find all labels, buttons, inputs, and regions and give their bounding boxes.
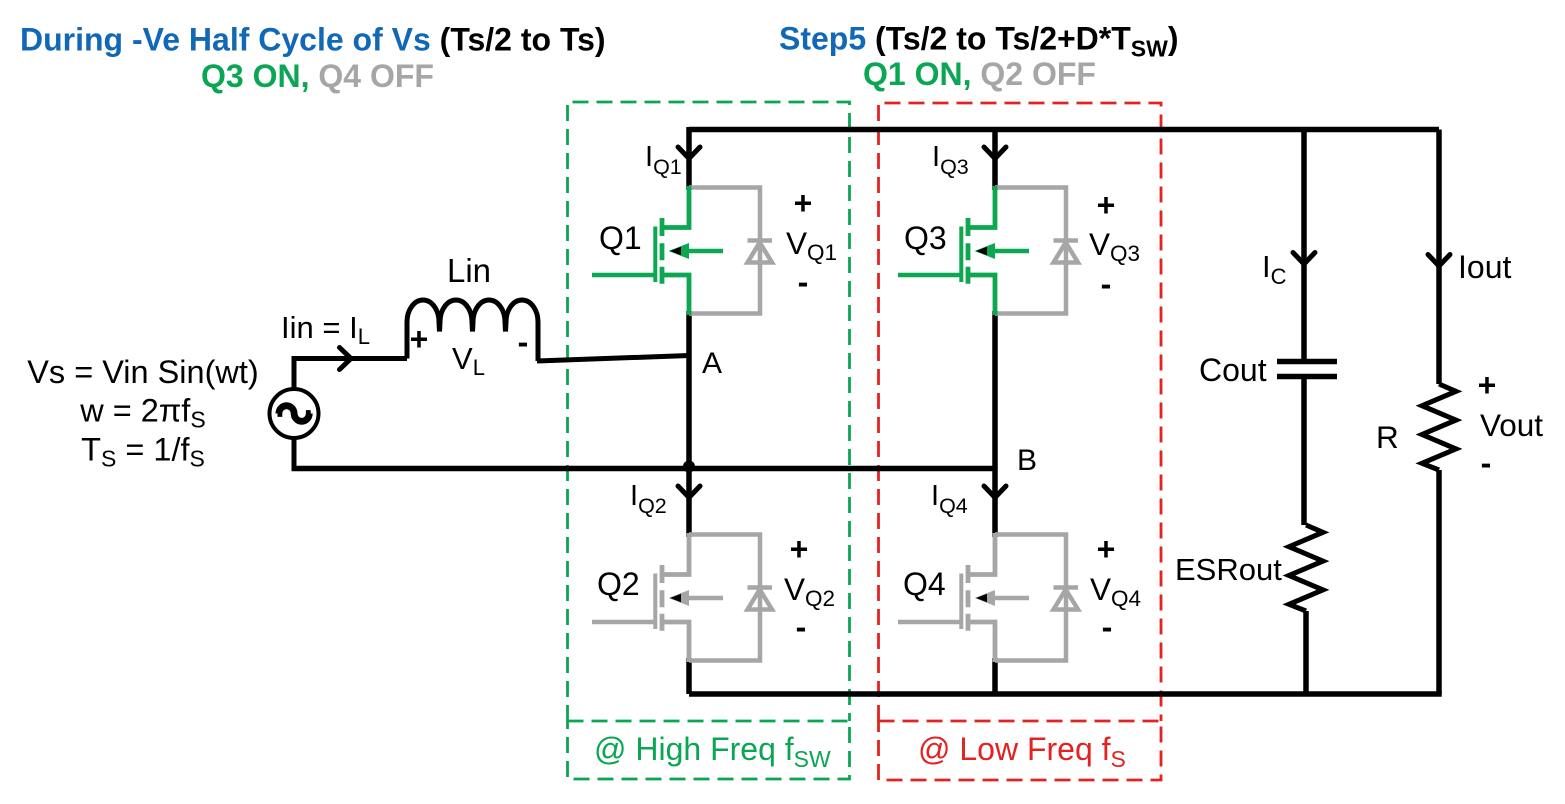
VQ1 label: [786, 225, 837, 265]
svg-text:+: +: [794, 185, 813, 221]
body diode D3 and loop: [995, 188, 1078, 314]
transistor Q2 (gray, with gray body diode D2): [592, 533, 772, 662]
svg-text:Q4: Q4: [903, 566, 946, 602]
svg-text:Iout: Iout: [1458, 249, 1511, 285]
svg-text:-: -: [1481, 445, 1492, 481]
IQ2 arrow: [678, 486, 700, 498]
svg-text:-: -: [1101, 266, 1112, 302]
wire Q2 source to bottom bus: [686, 658, 692, 694]
capacitor Cout: [1277, 362, 1337, 377]
VQ2 label: [784, 571, 835, 611]
svg-text:-: -: [518, 324, 529, 360]
red label text @ Low Freq fS: [918, 731, 1126, 772]
R label: [1376, 419, 1399, 455]
green label box: [568, 721, 850, 779]
svg-text:w = 2πfS: w = 2πfS: [79, 393, 205, 433]
body diode D2 and loop: [689, 535, 772, 661]
MOSFET body Q4: [898, 533, 1029, 662]
svg-text:-: -: [1102, 609, 1113, 645]
svg-text:Q2: Q2: [597, 566, 640, 602]
IQ1 label: [645, 141, 682, 179]
svg-text:B: B: [1017, 444, 1037, 477]
wire bottom bus: [689, 691, 1442, 697]
svg-text:Q1: Q1: [599, 220, 642, 256]
svg-text:+: +: [410, 321, 429, 357]
wire Cout to ESRout: [1301, 377, 1307, 526]
VQ2 plus: [790, 531, 809, 567]
wire A row (source bottom to leg B): [292, 466, 996, 472]
IQ3 arrow: [984, 147, 1006, 159]
Vout plus: [1478, 367, 1497, 403]
Q4 substrate arrow: [975, 590, 996, 606]
ESRout label: [1175, 552, 1282, 587]
VQ4 label: [1090, 571, 1141, 611]
MOSFET body Q2: [592, 533, 723, 662]
VL minus: [518, 324, 529, 360]
VQ3 minus: [1101, 266, 1112, 302]
Q1 substrate arrow: [669, 243, 690, 259]
IQ3 label: [932, 141, 969, 179]
svg-text:Vout: Vout: [1480, 407, 1543, 443]
IC arrow: [1293, 253, 1315, 265]
wire inductor to node A: [537, 356, 689, 362]
Q3 substrate arrow: [975, 243, 996, 259]
wire ESRout to bottom bus: [1303, 611, 1309, 694]
svg-text:Vs = Vin Sin(wt): Vs = Vin Sin(wt): [27, 354, 259, 390]
wire Q3 source to B: [992, 311, 998, 469]
transistor Q3 (green, with gray body diode D3): [898, 186, 1078, 315]
Iout arrow: [1428, 255, 1450, 267]
MOSFET body Q1: [592, 186, 723, 315]
green dashed region box: [568, 102, 850, 721]
svg-text:TS = 1/fS: TS = 1/fS: [81, 431, 205, 471]
svg-text:Q3: Q3: [904, 220, 947, 256]
title line 1 left: [20, 22, 606, 58]
Q4 label: [903, 566, 946, 602]
wire source bottom lead: [292, 438, 297, 469]
IQ1 arrow: [678, 147, 700, 159]
wire Q2 drain leg: [686, 469, 692, 538]
red label box: [879, 721, 1162, 780]
svg-text:Cout: Cout: [1199, 352, 1267, 388]
resistor ESRout: [1289, 525, 1323, 611]
VQ2 minus: [796, 609, 807, 645]
wire top bus: [689, 127, 1439, 133]
body diode D4 and loop: [995, 535, 1078, 661]
Iin arrow: [340, 348, 352, 370]
IQ2 label: [630, 480, 667, 518]
svg-text:R: R: [1376, 419, 1399, 455]
svg-text:ESRout: ESRout: [1175, 552, 1282, 587]
svg-text:Q1 ON, Q2 OFF: Q1 ON, Q2 OFF: [863, 56, 1096, 92]
wire source top lead: [294, 359, 407, 390]
svg-text:+: +: [1097, 531, 1116, 567]
Cout label: [1199, 352, 1267, 388]
wire Q1 source to A: [686, 311, 692, 469]
svg-text:-: -: [798, 264, 809, 300]
AC source Vs: [270, 389, 319, 438]
svg-text:-: -: [796, 609, 807, 645]
Iout label: [1458, 249, 1511, 285]
MOSFET body Q3: [898, 186, 1029, 315]
wire Q4 source to bottom bus: [992, 658, 998, 694]
body diode D1 and loop: [689, 188, 772, 314]
node A label: [702, 347, 722, 380]
svg-text:Iin = IL: Iin = IL: [281, 310, 370, 349]
wire Q1 drain leg: [686, 127, 692, 190]
resistor R: [1422, 384, 1456, 470]
Vout minus: [1481, 445, 1492, 481]
svg-text:During -Ve Half Cycle of Vs (T: During -Ve Half Cycle of Vs (Ts/2 to Ts): [20, 22, 606, 58]
inductor Lin: [407, 300, 538, 361]
svg-text:+: +: [1097, 187, 1116, 223]
VQ3 label: [1089, 226, 1140, 266]
wire R branch top: [1436, 130, 1442, 385]
svg-text:Lin: Lin: [447, 252, 491, 289]
wire Cout branch top: [1301, 130, 1307, 360]
svg-text:+: +: [790, 531, 809, 567]
VL label: [452, 341, 485, 380]
svg-text:A: A: [702, 347, 722, 380]
wire R to bottom bus: [1436, 470, 1442, 694]
Lin label: [447, 252, 491, 289]
Iin = IL label: [281, 310, 370, 349]
VQ4 plus: [1097, 531, 1116, 567]
VQ1 plus: [794, 185, 813, 221]
VQ1 minus: [798, 264, 809, 300]
wire Q4 drain leg: [992, 469, 998, 538]
Q2 substrate arrow: [669, 590, 690, 606]
IC label: [1262, 249, 1287, 289]
VL plus: [410, 321, 429, 357]
title line 2 left: [201, 58, 434, 94]
Q1 label: [599, 220, 642, 256]
Q3 label: [904, 220, 947, 256]
IQ4 arrow: [984, 486, 1006, 498]
title line 1 right: [779, 21, 1179, 62]
title line 2 right: [863, 56, 1096, 92]
wire Q3 drain leg: [992, 130, 998, 191]
node B label: [1017, 444, 1037, 477]
red dashed region box: [879, 103, 1162, 721]
Q2 label: [597, 566, 640, 602]
IQ4 label: [931, 480, 968, 518]
source text Vs = Vin Sin(wt): [27, 354, 259, 471]
VQ3 plus: [1097, 187, 1116, 223]
node A junction dot: [683, 461, 695, 473]
VQ4 minus: [1102, 609, 1113, 645]
transistor Q1 (green, with gray body diode D1): [592, 186, 772, 315]
svg-text:Q3 ON, Q4 OFF: Q3 ON, Q4 OFF: [201, 58, 434, 94]
Vout label: [1480, 407, 1543, 443]
svg-text:+: +: [1478, 367, 1497, 403]
transistor Q4 (gray, with gray body diode D4): [898, 533, 1078, 662]
svg-text:@ Low Freq fS: @ Low Freq fS: [918, 731, 1126, 772]
green label text @ High Freq fSW: [594, 731, 831, 772]
